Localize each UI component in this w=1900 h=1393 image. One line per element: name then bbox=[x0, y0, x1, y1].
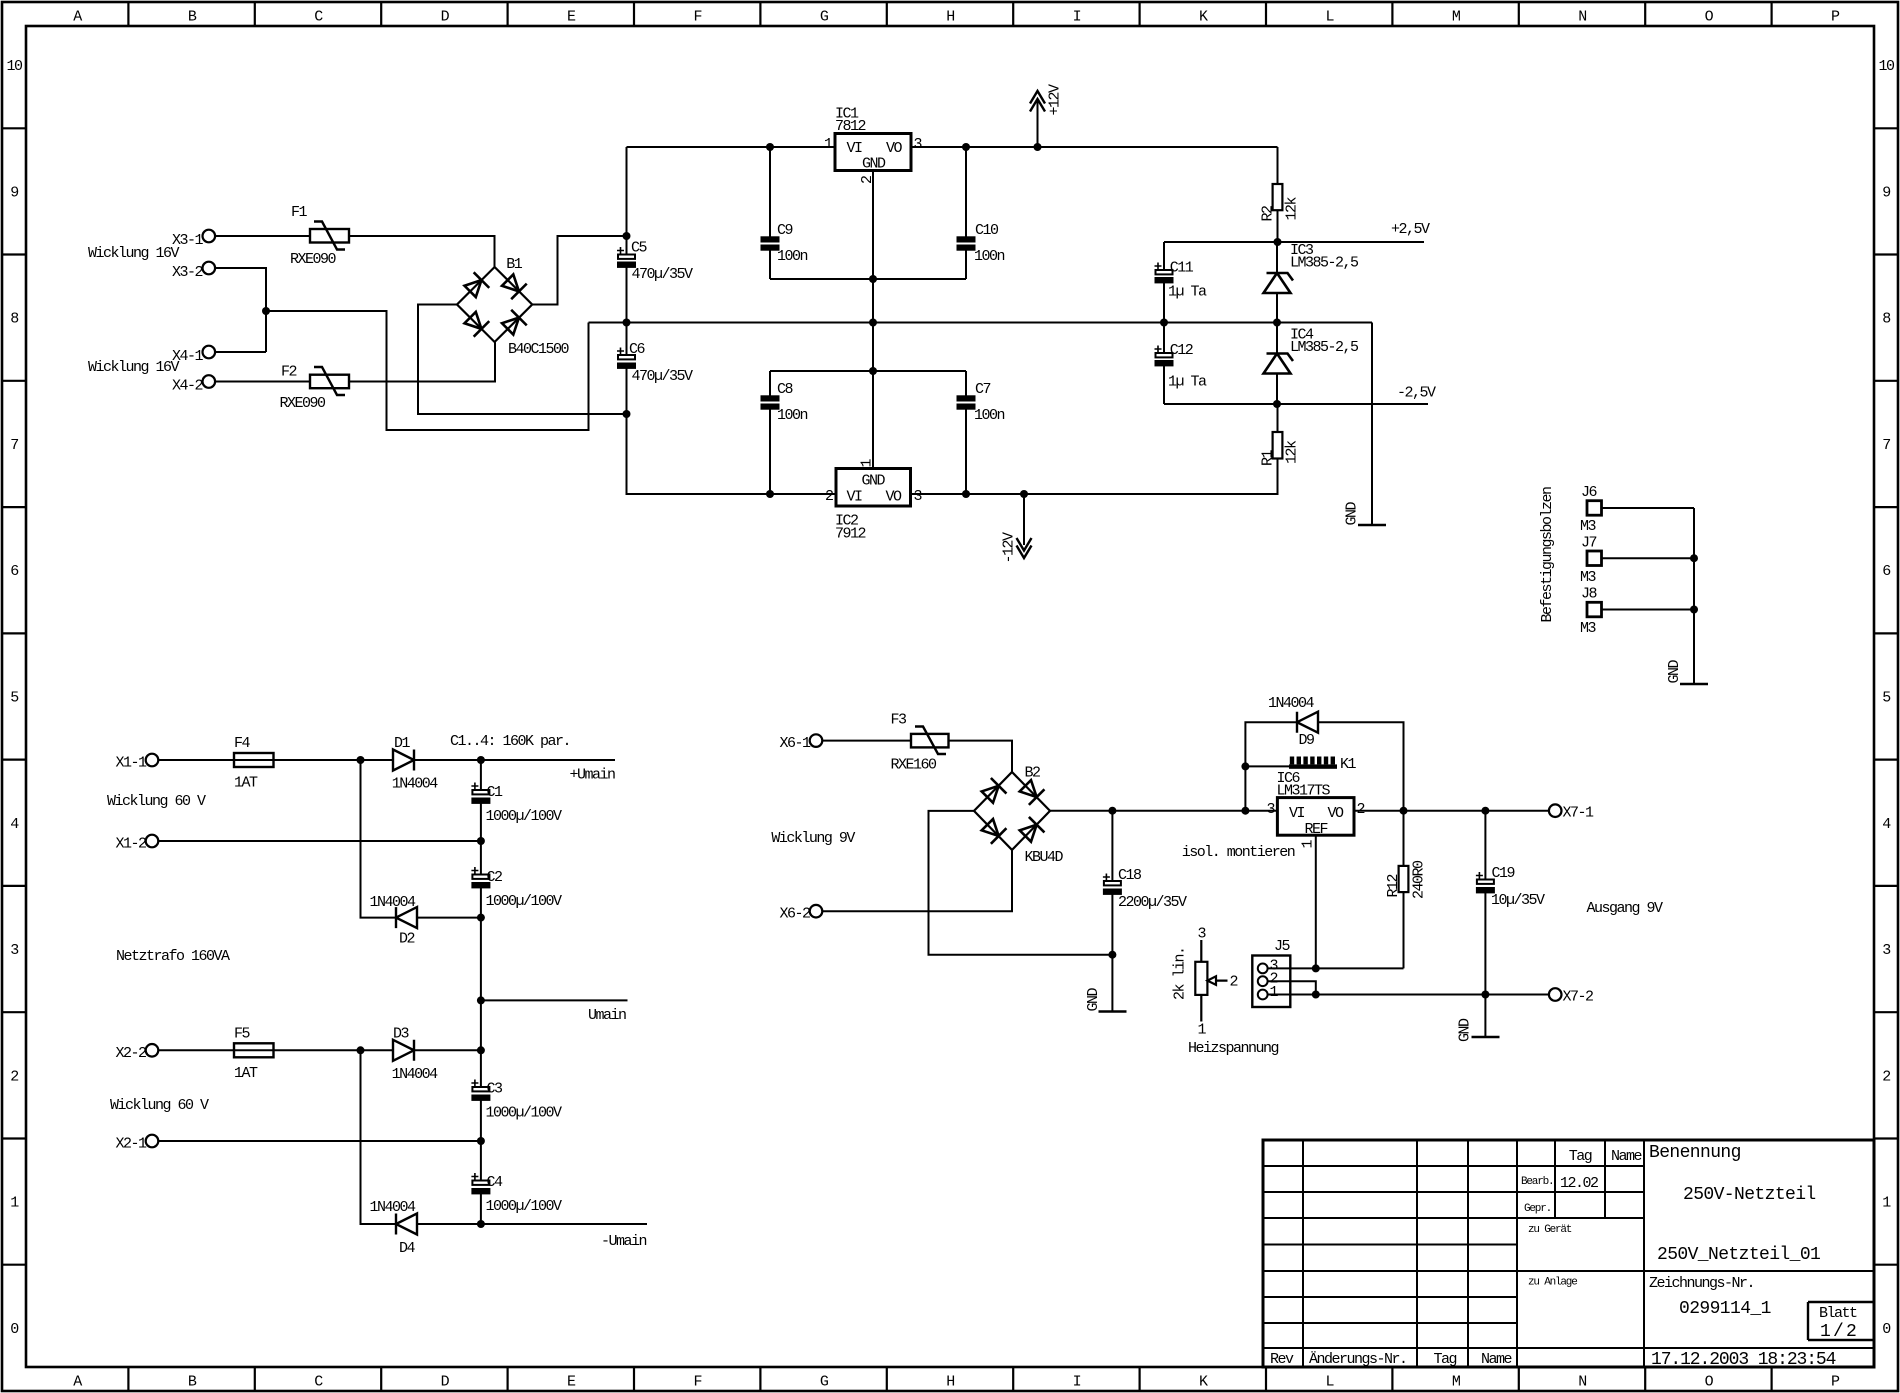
svg-text:100n: 100n bbox=[974, 407, 1005, 424]
wire F1 to B1 AC1 bbox=[349, 236, 495, 267]
wire C3 pins bbox=[480, 1050, 482, 1141]
svg-text:X2-1: X2-1 bbox=[115, 1136, 147, 1153]
title block Tag Name header dividers bbox=[1555, 1140, 1605, 1218]
svg-text:Bearb.: Bearb. bbox=[1521, 1176, 1553, 1188]
svg-text:Name: Name bbox=[1481, 1351, 1513, 1368]
wire F3 to B2 AC1 bbox=[949, 741, 1013, 772]
svg-text:2: 2 bbox=[1882, 1068, 1890, 1085]
capacitor C18 bbox=[1103, 874, 1121, 894]
svg-text:Änderungs-Nr.: Änderungs-Nr. bbox=[1309, 1350, 1407, 1368]
voltage regulator IC2 7912 bbox=[836, 469, 911, 507]
svg-text:2: 2 bbox=[1357, 801, 1365, 818]
wire C5 branch vertical bbox=[627, 147, 837, 494]
wire J6 to bus bbox=[1602, 507, 1695, 509]
svg-text:Name: Name bbox=[1611, 1148, 1643, 1165]
connector pin X2-1 bbox=[146, 1135, 159, 1148]
wire IC6 VO to X7-1 bbox=[1354, 810, 1549, 812]
wire B1 plus output to C5 rail bbox=[532, 236, 626, 305]
wire center tap to GND rail bbox=[266, 311, 589, 430]
svg-text:250V-Netzteil: 250V-Netzteil bbox=[1683, 1185, 1816, 1205]
wire D9 right to VO rail bbox=[1318, 722, 1404, 811]
mounting bolt J8 bbox=[1587, 602, 1602, 617]
wire X6-2 to B2 AC2 bbox=[822, 850, 1012, 911]
svg-text:Tag: Tag bbox=[1434, 1351, 1457, 1368]
wire -2,5V rail bbox=[1164, 403, 1428, 405]
wire R2 pins bbox=[1277, 147, 1279, 242]
svg-text:C3: C3 bbox=[487, 1081, 504, 1098]
connector pin X4-2 bbox=[203, 375, 216, 388]
svg-text:I: I bbox=[1073, 1374, 1081, 1391]
svg-text:D3: D3 bbox=[393, 1026, 410, 1043]
svg-text:1000µ/100V: 1000µ/100V bbox=[486, 893, 563, 910]
svg-text:240R0: 240R0 bbox=[1411, 860, 1428, 899]
svg-text:17.12.2003 18:23:54: 17.12.2003 18:23:54 bbox=[1651, 1350, 1836, 1370]
net +Umain wire bbox=[481, 759, 615, 761]
wire C9 C10 bottom rail bbox=[770, 278, 966, 280]
svg-text:Befestigungsbolzen: Befestigungsbolzen bbox=[1539, 487, 1556, 623]
svg-text:VI: VI bbox=[847, 489, 863, 506]
svg-text:Zeichnungs-Nr.: Zeichnungs-Nr. bbox=[1649, 1275, 1754, 1292]
ground symbol C19 bbox=[1472, 1036, 1500, 1039]
svg-text:C9: C9 bbox=[777, 222, 793, 239]
mounting bolt J7 bbox=[1587, 551, 1602, 566]
ground symbol near R1 bbox=[1358, 524, 1386, 527]
svg-text:RXE090: RXE090 bbox=[280, 395, 327, 412]
svg-text:2: 2 bbox=[1230, 974, 1238, 991]
svg-text:+Umain: +Umain bbox=[570, 767, 616, 784]
svg-text:C12: C12 bbox=[1170, 342, 1193, 359]
svg-text:I: I bbox=[1073, 9, 1081, 26]
svg-text:Netztrafo 160VA: Netztrafo 160VA bbox=[116, 948, 230, 965]
junction dots bolt bus bbox=[1690, 554, 1698, 613]
svg-text:250V_Netzteil_01: 250V_Netzteil_01 bbox=[1657, 1245, 1820, 1265]
Blatt box bbox=[1808, 1302, 1874, 1340]
wire bolt ground bus bbox=[1693, 508, 1695, 684]
wire B1 minus output to C6 bottom bbox=[418, 305, 627, 415]
wire C4 pins bbox=[480, 1141, 482, 1224]
svg-text:7: 7 bbox=[10, 437, 18, 454]
connector pin X3-2 bbox=[203, 262, 216, 275]
svg-text:1AT: 1AT bbox=[234, 1065, 258, 1082]
svg-text:LM385-2,5: LM385-2,5 bbox=[1290, 255, 1359, 272]
capacitor C12 bbox=[1155, 346, 1173, 366]
wire X3-2 to X4-1 vertical bbox=[215, 268, 266, 352]
fuse F5 1AT bbox=[234, 1043, 274, 1057]
svg-text:RXE160: RXE160 bbox=[891, 757, 938, 774]
svg-text:F: F bbox=[693, 9, 701, 26]
wire IC6 REF pin bbox=[1315, 835, 1317, 968]
svg-text:1AT: 1AT bbox=[234, 775, 258, 792]
wire IC4 pins bbox=[1276, 323, 1278, 405]
connector pin X7-1 bbox=[1549, 804, 1562, 817]
svg-text:1N4004: 1N4004 bbox=[1268, 695, 1315, 712]
resistor R2 bbox=[1273, 184, 1283, 210]
wire X2-2 to D3 bbox=[158, 1049, 393, 1051]
capacitor C4 bbox=[471, 1173, 489, 1193]
svg-text:F4: F4 bbox=[234, 735, 251, 752]
diode D1 1N4004 bbox=[393, 750, 414, 771]
svg-text:GND: GND bbox=[1457, 1018, 1474, 1042]
svg-text:GND: GND bbox=[1085, 987, 1102, 1011]
potentiometer 2k bbox=[1195, 940, 1227, 1022]
voltage regulator IC1 7812 bbox=[835, 134, 911, 171]
wire C12 pins bbox=[1163, 323, 1165, 405]
wire D1 to C1 top bbox=[414, 759, 481, 761]
svg-text:9: 9 bbox=[10, 184, 18, 201]
capacitor C1 bbox=[471, 783, 489, 803]
diode D3 1N4004 bbox=[393, 1040, 414, 1061]
voltage regulator IC6 LM317TS bbox=[1277, 798, 1354, 836]
svg-text:X3-2: X3-2 bbox=[172, 264, 203, 281]
svg-text:100n: 100n bbox=[777, 248, 808, 265]
wire R1 top to -2,5V rail bbox=[1277, 404, 1279, 432]
wire IC1 GND to IC2 GND vertical bbox=[872, 171, 874, 469]
wire C2 bottom to Umain bbox=[480, 918, 482, 1001]
svg-text:R12: R12 bbox=[1385, 874, 1402, 897]
svg-text:1N4004: 1N4004 bbox=[392, 776, 439, 793]
svg-text:KBU4D: KBU4D bbox=[1025, 849, 1064, 866]
svg-text:D2: D2 bbox=[399, 931, 415, 948]
capacitor C9 bbox=[762, 237, 779, 241]
svg-text:F5: F5 bbox=[234, 1026, 251, 1043]
svg-text:VI: VI bbox=[1289, 805, 1305, 822]
wire X1-1 to D1 bbox=[158, 759, 393, 761]
wire D4 to C4 bottom bbox=[417, 1223, 481, 1225]
svg-text:M3: M3 bbox=[1580, 518, 1597, 535]
svg-text:D1: D1 bbox=[394, 735, 411, 752]
wire C2 pins bbox=[480, 841, 482, 918]
svg-text:N: N bbox=[1578, 1374, 1586, 1391]
diode D4 1N4004 bbox=[396, 1214, 417, 1235]
diode D9 1N4004 bbox=[1297, 712, 1318, 733]
svg-text:B40C1500: B40C1500 bbox=[508, 341, 570, 358]
junction dots top section bbox=[262, 143, 1282, 498]
wire F2 to B1 AC2 bbox=[349, 342, 495, 381]
svg-text:GND: GND bbox=[862, 473, 886, 490]
wire Umain to D3 row bbox=[480, 1000, 482, 1050]
svg-text:9: 9 bbox=[1882, 184, 1890, 201]
connector pin X1-2 bbox=[146, 835, 159, 848]
svg-text:VO: VO bbox=[1328, 805, 1345, 822]
wire D9 left branch bbox=[1245, 722, 1297, 811]
wire R12 pins bbox=[1403, 811, 1405, 969]
wire C1 pins bbox=[480, 760, 482, 841]
svg-text:C7: C7 bbox=[975, 381, 991, 398]
svg-text:D4: D4 bbox=[399, 1240, 416, 1257]
capacitor C6 bbox=[617, 348, 635, 368]
svg-text:GND: GND bbox=[1666, 659, 1683, 683]
connector pin X7-2 bbox=[1549, 988, 1562, 1001]
svg-text:C19: C19 bbox=[1492, 865, 1515, 882]
wire J5-1 to X7-2 bbox=[1268, 994, 1549, 996]
connector pin X6-2 bbox=[810, 905, 823, 918]
svg-text:H: H bbox=[946, 1374, 954, 1391]
svg-text:Umain: Umain bbox=[588, 1007, 626, 1024]
capacitor C2 bbox=[471, 867, 489, 887]
svg-text:F1: F1 bbox=[291, 204, 308, 221]
wire C9 pins bbox=[769, 147, 771, 279]
svg-text:12k: 12k bbox=[1284, 440, 1301, 464]
svg-text:B1: B1 bbox=[506, 256, 523, 273]
bridge rectifier B1 bbox=[457, 267, 532, 342]
svg-text:C5: C5 bbox=[631, 240, 648, 257]
connector pin X1-1 bbox=[146, 754, 159, 767]
svg-text:zu Anlage: zu Anlage bbox=[1528, 1277, 1577, 1289]
wire GND stub right bbox=[1371, 323, 1373, 526]
wire B2 minus loop bbox=[929, 811, 1113, 955]
fuse F2 RXE090 bbox=[310, 367, 349, 395]
svg-text:X2-2: X2-2 bbox=[115, 1045, 146, 1062]
svg-text:Wicklung 16V: Wicklung 16V bbox=[88, 359, 180, 376]
svg-text:LM317TS: LM317TS bbox=[1277, 783, 1331, 800]
wire C18 pins bbox=[1111, 811, 1113, 1012]
wire +12V top rail bbox=[627, 146, 1278, 148]
mounting bolt J6 bbox=[1587, 501, 1602, 516]
svg-text:GND: GND bbox=[862, 156, 886, 173]
svg-text:Ausgang 9V: Ausgang 9V bbox=[1587, 900, 1664, 917]
svg-text:470µ/35V: 470µ/35V bbox=[632, 368, 694, 385]
svg-text:Blatt: Blatt bbox=[1819, 1305, 1857, 1322]
svg-text:2200µ/35V: 2200µ/35V bbox=[1118, 894, 1187, 911]
connector pin X6-1 bbox=[810, 734, 823, 747]
capacitor C3 bbox=[471, 1080, 489, 1100]
capacitor C11 bbox=[1155, 263, 1173, 283]
svg-text:VI: VI bbox=[847, 140, 863, 157]
wire +2,5V rail bbox=[1164, 241, 1424, 243]
connector pin X2-2 bbox=[146, 1044, 159, 1057]
svg-text:2: 2 bbox=[10, 1068, 18, 1085]
wire X1-2 rail bbox=[158, 840, 481, 842]
resistor R1 bbox=[1273, 432, 1283, 459]
svg-text:X1-1: X1-1 bbox=[115, 755, 147, 772]
svg-text:K1: K1 bbox=[1340, 756, 1357, 773]
wire C10 pins bbox=[965, 147, 967, 279]
svg-text:Rev: Rev bbox=[1270, 1351, 1294, 1368]
svg-text:-Umain: -Umain bbox=[601, 1233, 647, 1250]
wire C8 pins bbox=[769, 371, 771, 494]
svg-text:1N4004: 1N4004 bbox=[392, 1066, 439, 1083]
svg-text:Tag: Tag bbox=[1569, 1148, 1592, 1165]
svg-text:X6-2: X6-2 bbox=[779, 906, 810, 923]
svg-text:Heizspannung: Heizspannung bbox=[1188, 1040, 1279, 1057]
svg-text:F2: F2 bbox=[281, 364, 297, 381]
svg-text:GND: GND bbox=[1344, 501, 1361, 525]
wire C7 pins bbox=[965, 371, 967, 494]
svg-text:VO: VO bbox=[886, 140, 903, 157]
wire J5-3 bbox=[1268, 967, 1316, 969]
svg-text:M3: M3 bbox=[1580, 620, 1597, 637]
svg-text:VO: VO bbox=[886, 489, 903, 506]
svg-text:F3: F3 bbox=[891, 712, 908, 729]
connector pin X4-1 bbox=[203, 346, 216, 359]
svg-text:7: 7 bbox=[1882, 437, 1890, 454]
svg-text:Gepr.: Gepr. bbox=[1524, 1203, 1551, 1215]
svg-text:J8: J8 bbox=[1581, 586, 1598, 603]
wire X6-1 to F3 bbox=[822, 740, 911, 742]
svg-text:+12V: +12V bbox=[1047, 84, 1064, 116]
svg-text:J7: J7 bbox=[1581, 535, 1597, 552]
fuse F4 1AT bbox=[234, 753, 274, 767]
svg-text:zu Gerät: zu Gerät bbox=[1528, 1224, 1572, 1236]
svg-text:C8: C8 bbox=[777, 381, 794, 398]
svg-text:Wicklung 9V: Wicklung 9V bbox=[771, 830, 855, 847]
svg-text:B2: B2 bbox=[1025, 765, 1041, 782]
connector pin X3-1 bbox=[203, 230, 216, 243]
heatsink K1 bbox=[1289, 757, 1337, 769]
svg-text:7812: 7812 bbox=[835, 118, 866, 135]
wire J5-2 bbox=[1268, 981, 1316, 994]
svg-text:REF: REF bbox=[1305, 821, 1328, 838]
svg-text:Benennung: Benennung bbox=[1649, 1143, 1741, 1163]
fuse F3 RXE160 bbox=[911, 727, 949, 755]
wire X4-2 to F2 bbox=[215, 381, 310, 383]
svg-text:100n: 100n bbox=[974, 248, 1005, 265]
wire C8 C7 top rail bbox=[770, 370, 966, 372]
capacitor C5 bbox=[617, 247, 635, 267]
svg-text:0299114_1: 0299114_1 bbox=[1679, 1299, 1771, 1319]
wire X3-1 to F1 bbox=[215, 235, 310, 237]
svg-text:C10: C10 bbox=[975, 222, 999, 239]
svg-text:2: 2 bbox=[825, 488, 833, 505]
wire branch F5 to D4 bbox=[361, 1050, 397, 1224]
svg-text:M3: M3 bbox=[1580, 569, 1597, 586]
wire J8 to bus bbox=[1602, 609, 1695, 611]
wire K1 branch bbox=[1245, 765, 1289, 767]
svg-text:Wicklung 60 V: Wicklung 60 V bbox=[110, 1097, 209, 1114]
title block horizontal dividers bbox=[1263, 1166, 1874, 1348]
capacitor C10 bbox=[958, 237, 975, 241]
svg-text:470µ/35V: 470µ/35V bbox=[632, 266, 694, 283]
svg-text:-2,5V: -2,5V bbox=[1397, 385, 1436, 402]
svg-text:C11: C11 bbox=[1170, 260, 1194, 277]
svg-text:1000µ/100V: 1000µ/100V bbox=[486, 1105, 563, 1122]
svg-text:1µ Ta: 1µ Ta bbox=[1168, 374, 1207, 391]
wire B2 plus to IC6 VI bbox=[1050, 810, 1277, 812]
title block outer border bbox=[1263, 1140, 1874, 1367]
svg-text:2: 2 bbox=[859, 176, 876, 184]
svg-text:12.02: 12.02 bbox=[1560, 1175, 1598, 1192]
svg-text:7912: 7912 bbox=[835, 526, 866, 543]
svg-text:10: 10 bbox=[6, 58, 23, 75]
svg-text:C1: C1 bbox=[487, 784, 504, 801]
svg-text:LM385-2,5: LM385-2,5 bbox=[1290, 339, 1359, 356]
svg-text:J5: J5 bbox=[1274, 938, 1291, 955]
capacitor C19 bbox=[1476, 872, 1494, 892]
wire D2 to C2 bottom bbox=[417, 917, 481, 919]
wire GND center rail bbox=[589, 322, 1373, 324]
svg-text:Wicklung 60 V: Wicklung 60 V bbox=[107, 793, 206, 810]
ground symbol C18 bbox=[1099, 1010, 1127, 1013]
connector J5 bbox=[1252, 956, 1290, 1008]
wire X2-1 rail bbox=[158, 1140, 481, 1142]
svg-text:12k: 12k bbox=[1284, 196, 1301, 220]
svg-text:F: F bbox=[693, 1374, 701, 1391]
wire IC3 pins bbox=[1276, 242, 1278, 323]
fuse F1 RXE090 bbox=[310, 222, 349, 250]
wire C19 pins bbox=[1484, 811, 1486, 1037]
diode D2 1N4004 bbox=[396, 907, 417, 928]
wire C11 pins bbox=[1163, 242, 1165, 323]
svg-text:R2: R2 bbox=[1260, 206, 1277, 222]
svg-text:C2: C2 bbox=[487, 869, 503, 886]
net Umain wire bbox=[481, 999, 628, 1001]
svg-text:RXE090: RXE090 bbox=[290, 251, 337, 268]
wire J7 to bus bbox=[1602, 557, 1695, 559]
net -Umain wire bbox=[481, 1223, 647, 1225]
svg-text:+2,5V: +2,5V bbox=[1391, 221, 1430, 238]
title block vertical dividers full bbox=[1303, 1140, 1644, 1367]
svg-text:X7-1: X7-1 bbox=[1563, 805, 1595, 822]
svg-text:isol. montieren: isol. montieren bbox=[1182, 844, 1295, 861]
svg-text:X1-2: X1-2 bbox=[115, 836, 146, 853]
svg-text:2k lin.: 2k lin. bbox=[1172, 947, 1189, 1000]
ground symbol bolts bbox=[1680, 683, 1708, 686]
wire D3 to C3 top bbox=[414, 1049, 481, 1051]
svg-text:N: N bbox=[1578, 9, 1586, 26]
svg-text:H: H bbox=[946, 9, 954, 26]
svg-text:10µ/35V: 10µ/35V bbox=[1491, 892, 1545, 909]
svg-text:-12V: -12V bbox=[1001, 532, 1018, 564]
svg-text:Wicklung 16V: Wicklung 16V bbox=[88, 245, 180, 262]
svg-text:C6: C6 bbox=[629, 341, 646, 358]
junction dots bottom left bbox=[357, 756, 485, 1228]
svg-text:1000µ/100V: 1000µ/100V bbox=[486, 808, 563, 825]
capacitor C8 bbox=[762, 396, 779, 400]
svg-text:C18: C18 bbox=[1118, 867, 1142, 884]
svg-text:1N4004: 1N4004 bbox=[370, 894, 417, 911]
bridge rectifier B2 bbox=[974, 772, 1050, 850]
svg-text:1/2: 1/2 bbox=[1820, 1322, 1859, 1342]
wire REF junction to R12 bottom bbox=[1316, 967, 1404, 969]
svg-text:1N4004: 1N4004 bbox=[370, 1199, 417, 1216]
supply arrow -12V bbox=[1023, 494, 1025, 545]
svg-text:C4: C4 bbox=[487, 1174, 504, 1191]
svg-text:X6-1: X6-1 bbox=[779, 735, 811, 752]
zener reference IC3 LM385-2,5 bbox=[1264, 273, 1294, 293]
svg-text:D9: D9 bbox=[1299, 732, 1315, 749]
supply arrow +12V bbox=[1037, 100, 1039, 147]
svg-text:10: 10 bbox=[1878, 58, 1895, 75]
svg-text:J6: J6 bbox=[1581, 484, 1598, 501]
svg-text:1µ Ta: 1µ Ta bbox=[1168, 284, 1207, 301]
svg-text:1000µ/100V: 1000µ/100V bbox=[486, 1198, 563, 1215]
capacitor C7 bbox=[958, 396, 975, 400]
zener reference IC4 LM385-2,5 bbox=[1264, 354, 1294, 374]
wire branch F4 to D2 bbox=[361, 760, 397, 918]
junction dots bottom middle bbox=[1108, 762, 1489, 998]
svg-text:100n: 100n bbox=[777, 407, 808, 424]
svg-text:C1..4: 160K par.: C1..4: 160K par. bbox=[450, 733, 570, 750]
svg-text:X7-2: X7-2 bbox=[1563, 989, 1594, 1006]
wire IC2 output rail bbox=[911, 459, 1278, 495]
svg-text:R1: R1 bbox=[1260, 449, 1277, 466]
svg-text:X4-2: X4-2 bbox=[172, 378, 203, 395]
resistor R12 bbox=[1399, 866, 1409, 892]
